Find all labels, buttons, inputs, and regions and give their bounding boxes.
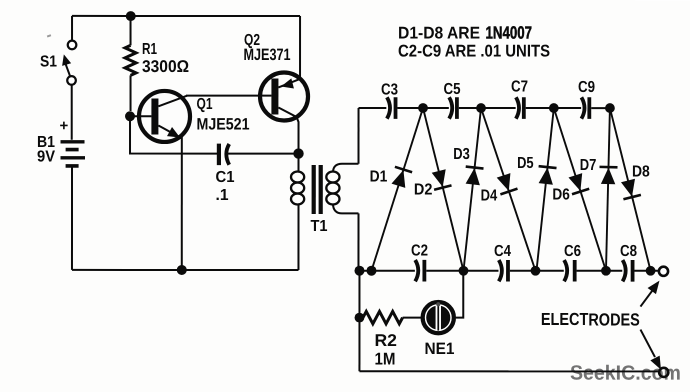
switch S1 — [47, 34, 51, 37]
svg-text:D6: D6 — [552, 187, 569, 204]
capacitor C2 — [411, 243, 428, 282]
wire bottom rail left — [72, 269, 298, 271]
capacitor C5 — [444, 81, 461, 119]
wire — [426, 270, 498, 272]
svg-text:+: + — [60, 117, 69, 134]
svg-text:1M: 1M — [374, 350, 395, 369]
capacitor C6 — [564, 243, 581, 282]
diode D2 — [414, 108, 464, 271]
wire secondary bottom to bottom row — [357, 213, 359, 270]
node C1/Q2-collector/T1 junction — [293, 148, 303, 158]
pointer to top electrode — [640, 281, 659, 307]
pointer to bottom electrode — [640, 330, 661, 370]
transistor Q1 — [130, 91, 250, 142]
wire S1 to battery — [71, 85, 73, 140]
diode D8 — [610, 108, 651, 271]
node bottom row F — [646, 266, 656, 276]
node top row 4 — [605, 103, 615, 113]
svg-text:9V: 9V — [37, 148, 55, 165]
svg-text:C7: C7 — [511, 79, 528, 96]
wire NE1 right to bottom row node C — [456, 271, 463, 318]
wire top rail — [72, 15, 300, 17]
neon lamp NE1 — [423, 302, 455, 358]
node bottom row C — [459, 266, 469, 276]
wire Q1 emitter to bottom rail — [181, 137, 183, 270]
svg-text:3300Ω: 3300Ω — [142, 57, 189, 76]
wire — [591, 107, 610, 109]
svg-text:C2-C9 ARE .01 UNITS: C2-C9 ARE .01 UNITS — [398, 42, 550, 61]
svg-text:C9: C9 — [578, 79, 595, 96]
wire — [459, 107, 516, 109]
svg-text:T1: T1 — [310, 218, 327, 235]
wire bottom row — [358, 270, 414, 272]
svg-text:.1: .1 — [215, 187, 228, 204]
svg-text:C1: C1 — [216, 169, 235, 186]
svg-text:D1-D8 ARE: D1-D8 ARE — [398, 24, 480, 43]
wire — [510, 270, 564, 272]
wire Q1 collector to Q2 base — [186, 95, 271, 97]
svg-text:ELECTRODES: ELECTRODES — [541, 309, 640, 329]
svg-text:1N4007: 1N4007 — [486, 23, 533, 43]
svg-text:NE1: NE1 — [424, 340, 454, 358]
svg-text:D5: D5 — [517, 155, 534, 172]
diode D7 — [580, 108, 618, 271]
svg-text:MJE371: MJE371 — [244, 46, 291, 64]
node Q1 base junction — [125, 111, 135, 121]
battery B1 — [37, 117, 85, 167]
svg-text:R1: R1 — [142, 41, 157, 58]
svg-text:D8: D8 — [632, 163, 650, 180]
electrode terminal top — [659, 267, 668, 276]
capacitor C8 — [620, 243, 637, 282]
svg-text:Q1: Q1 — [197, 96, 213, 113]
node top row 1 — [418, 103, 428, 113]
diode D6 — [552, 108, 606, 271]
svg-text:C4: C4 — [494, 243, 511, 260]
svg-text:MJE521: MJE521 — [197, 115, 250, 133]
transformer T1 — [291, 154, 359, 270]
svg-text:C5: C5 — [444, 81, 461, 98]
svg-text:SeekIC.com: SeekIC.com — [570, 362, 681, 385]
capacitor C4 — [494, 243, 511, 282]
node emitter/bottom-rail junction — [177, 265, 187, 275]
svg-text:D7: D7 — [580, 157, 597, 174]
node top row 2 — [476, 103, 486, 113]
node top row 3 — [549, 103, 559, 113]
svg-text:D2: D2 — [414, 181, 433, 198]
wire node A down to R2 — [358, 271, 360, 318]
node R2 left — [355, 313, 365, 323]
svg-text:D3: D3 — [453, 146, 470, 163]
node top-rail/R1 junction — [126, 11, 136, 21]
wire top row — [359, 107, 387, 109]
diode D3 — [453, 108, 483, 271]
svg-text:D4: D4 — [481, 188, 498, 205]
svg-text:R2: R2 — [374, 331, 397, 350]
wire battery to bottom rail — [71, 168, 73, 270]
node bottom row A (secondary/R2) — [354, 266, 364, 276]
wire secondary top to top row — [358, 108, 360, 164]
svg-text:C2: C2 — [411, 243, 428, 260]
wire — [526, 107, 581, 109]
capacitor C3 — [381, 82, 398, 119]
wire — [577, 270, 623, 272]
svg-text:D1: D1 — [370, 168, 388, 185]
wire output rail bottom — [359, 370, 658, 372]
diode D4 — [481, 108, 536, 271]
wire — [397, 107, 448, 109]
svg-text:C8: C8 — [620, 243, 637, 260]
resistor R2 — [359, 311, 421, 368]
transistor Q2 — [244, 16, 309, 154]
node bottom row B (D1 anode) — [366, 266, 376, 276]
capacitor C7 — [511, 79, 528, 119]
capacitor C1 — [130, 116, 299, 204]
node bottom row D — [531, 266, 541, 276]
resistor R1 — [125, 16, 189, 111]
diode D5 — [517, 108, 556, 271]
capacitor C9 — [578, 79, 595, 119]
wire — [634, 270, 658, 272]
svg-text:C6: C6 — [564, 243, 581, 260]
node bottom row E — [601, 266, 611, 276]
diode D1 — [370, 108, 423, 271]
svg-text:S1: S1 — [40, 53, 57, 70]
wire R2 node down to output rail — [358, 318, 360, 372]
electrode terminal bottom — [659, 368, 668, 377]
svg-text:C3: C3 — [381, 82, 398, 99]
